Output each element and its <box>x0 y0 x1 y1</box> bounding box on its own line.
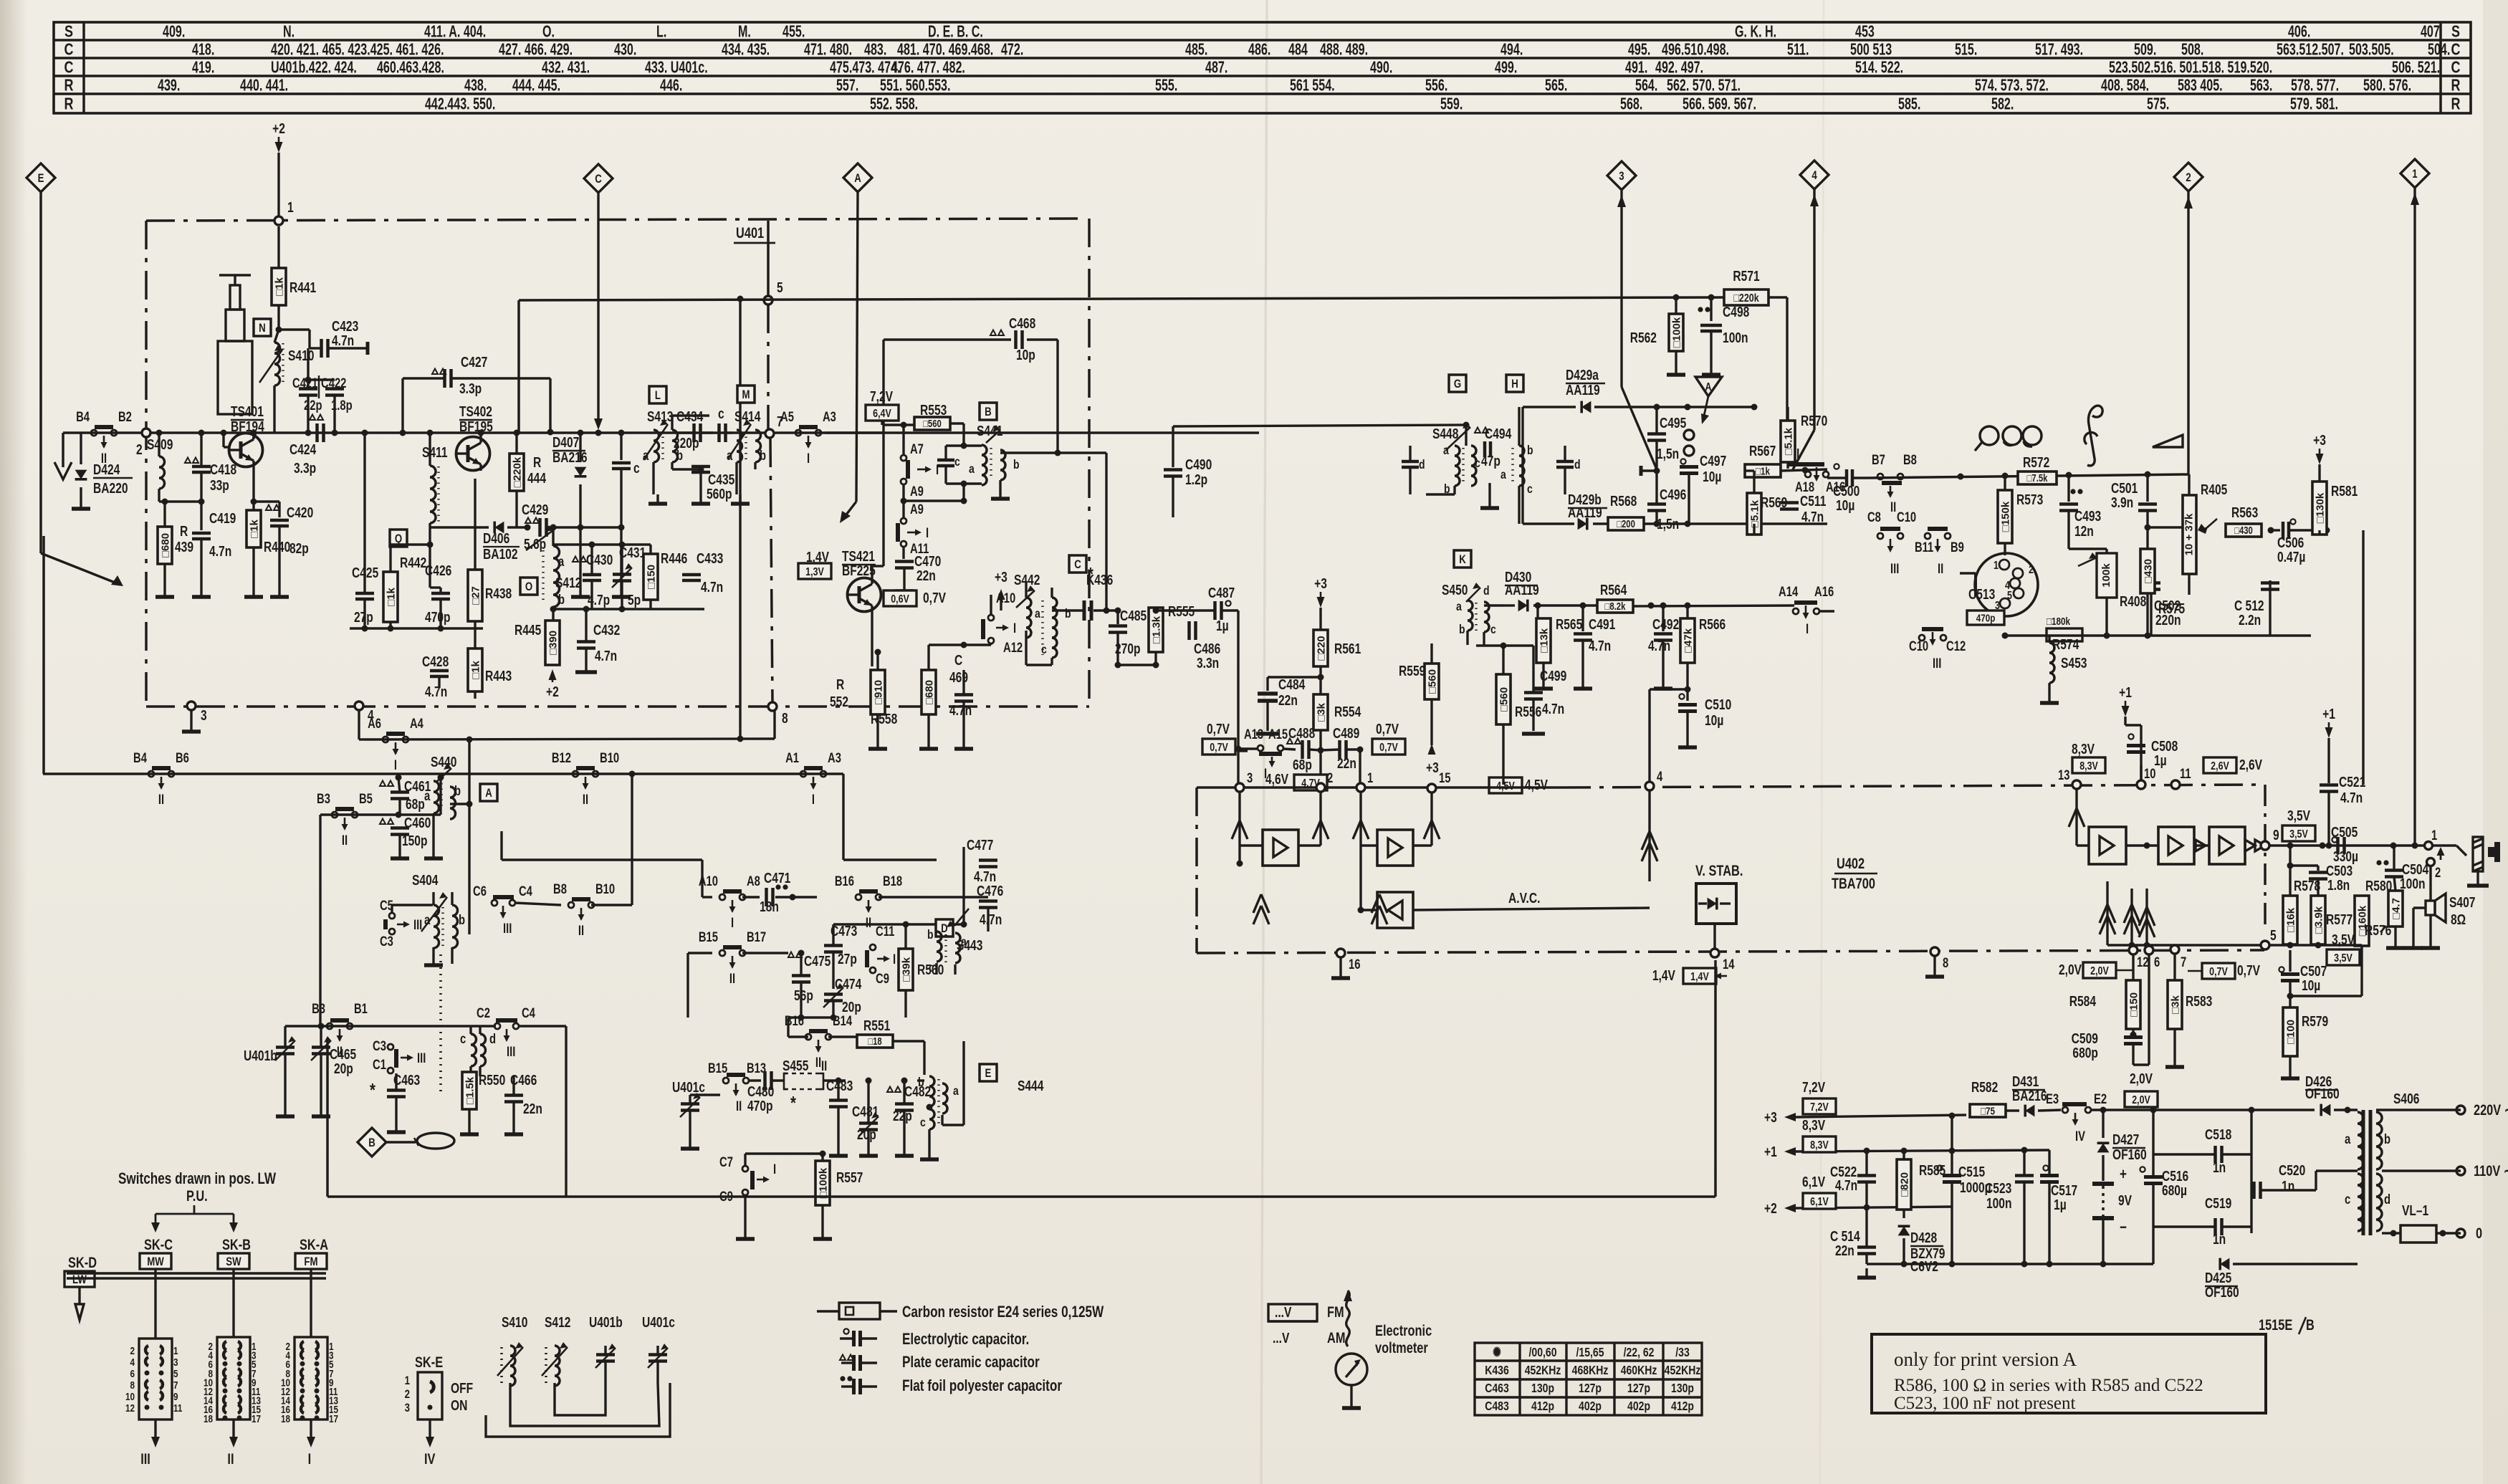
svg-text:566. 569. 567.: 566. 569. 567. <box>1683 95 1756 113</box>
svg-text:/15,65: /15,65 <box>1576 1345 1604 1359</box>
svg-text:R575: R575 <box>2158 600 2185 616</box>
svg-text:C483: C483 <box>1485 1399 1509 1413</box>
svg-text:+3: +3 <box>1314 575 1327 591</box>
svg-text:II: II <box>158 792 164 807</box>
capacitor d right <box>1556 460 1574 464</box>
svg-text:R559: R559 <box>1399 663 1425 679</box>
R445 resistor <box>545 621 560 665</box>
svg-text:484: 484 <box>1288 41 1308 59</box>
wire to S444 <box>936 975 937 1018</box>
svg-text:C7: C7 <box>719 1154 733 1169</box>
svg-text:470p: 470p <box>425 609 451 625</box>
svg-text:C515: C515 <box>1958 1164 1985 1179</box>
svg-text:/33: /33 <box>1675 1345 1690 1359</box>
C488 capacitor <box>1287 739 1293 745</box>
C507 capacitor <box>2279 967 2284 972</box>
node 12 6 7 <box>2129 946 2138 954</box>
svg-text:1,5n: 1,5n <box>1657 516 1679 532</box>
contact A10 A12 <box>871 612 873 666</box>
svg-text:b: b <box>1459 622 1465 636</box>
svg-text:12: 12 <box>125 1402 135 1414</box>
svg-text:B12: B12 <box>552 750 571 765</box>
R573 resistor <box>2004 476 2006 490</box>
svg-text:460KHz: 460KHz <box>1621 1363 1657 1377</box>
svg-text:C519: C519 <box>2205 1195 2231 1211</box>
svg-text:R: R <box>2451 95 2461 113</box>
svg-text:C428: C428 <box>422 654 449 669</box>
wire A1A3 to mixer <box>823 773 843 775</box>
svg-text:500 513: 500 513 <box>1850 41 1892 59</box>
svg-text:412p: 412p <box>1531 1399 1554 1413</box>
+2 rail <box>1784 1204 1796 1212</box>
svg-text:578. 577.: 578. 577. <box>2291 77 2339 95</box>
svg-text:SW: SW <box>226 1255 241 1269</box>
svg-text:II: II <box>736 1098 742 1114</box>
svg-text:BA220: BA220 <box>93 480 128 496</box>
R584 resistor <box>2126 980 2140 1029</box>
svg-text:3: 3 <box>173 1356 178 1369</box>
svg-text:U401b: U401b <box>244 1048 277 1063</box>
svg-text:□5.1k: □5.1k <box>1782 427 1794 455</box>
svg-text:127p: 127p <box>1579 1381 1602 1395</box>
svg-text:C422: C422 <box>321 375 346 391</box>
svg-text:B: B <box>985 406 992 419</box>
U401 boundary right <box>1088 219 1091 707</box>
svg-text:17: 17 <box>329 1412 338 1425</box>
svg-text:C470: C470 <box>914 553 941 569</box>
svg-text:R564: R564 <box>1600 582 1627 598</box>
svg-text:27p: 27p <box>838 951 857 967</box>
svg-text:□3k: □3k <box>1315 702 1327 721</box>
svg-text:R556: R556 <box>1515 704 1541 719</box>
svg-text:C497: C497 <box>1700 453 1726 469</box>
wire TS421 emitter <box>872 666 878 667</box>
node 3 <box>187 702 196 710</box>
volume wedge icon <box>2153 435 2183 447</box>
svg-text:407: 407 <box>2421 23 2440 41</box>
svg-text:A: A <box>854 172 861 186</box>
svg-text:C513: C513 <box>1968 586 1995 602</box>
svg-text:III: III <box>140 1450 150 1467</box>
svg-text:C: C <box>1074 558 1081 572</box>
C502 capacitor <box>2150 580 2152 636</box>
rail B4 B6 long <box>43 772 843 775</box>
svg-text:C10: C10 <box>1909 638 1928 654</box>
svg-text:O.: O. <box>542 23 555 41</box>
svg-text:TS401: TS401 <box>231 403 264 419</box>
svg-text:R573: R573 <box>2016 492 2043 507</box>
svg-text:□4.7: □4.7 <box>2390 898 2402 919</box>
R565 resistor <box>1536 605 1538 618</box>
svg-text:...V: ...V <box>1273 1330 1289 1346</box>
telescopic antenna <box>219 274 251 277</box>
R556 resistor <box>1496 674 1511 724</box>
svg-text:483.: 483. <box>864 41 886 59</box>
svg-text:d: d <box>1574 457 1581 471</box>
svg-text:10: 10 <box>125 1391 135 1403</box>
svg-text:□430: □430 <box>2234 525 2253 537</box>
svg-text:564.: 564. <box>1635 77 1657 95</box>
svg-text:C419: C419 <box>209 510 236 526</box>
svg-text:4.7n: 4.7n <box>595 648 617 664</box>
svg-text:3,5V: 3,5V <box>2332 932 2355 947</box>
svg-text:E3: E3 <box>2046 1091 2059 1106</box>
C517 capacitor <box>2043 1165 2048 1170</box>
svg-text:S440: S440 <box>431 754 456 770</box>
speaker S407 <box>2429 865 2431 939</box>
svg-text:0,7V: 0,7V <box>1376 721 1399 737</box>
svg-text:0,7V: 0,7V <box>1210 741 1228 754</box>
svg-text:C517: C517 <box>2051 1182 2077 1198</box>
svg-text:488. 489.: 488. 489. <box>1320 41 1368 59</box>
svg-text:438.: 438. <box>464 77 487 95</box>
svg-text:□100: □100 <box>2284 1020 2297 1044</box>
svg-text:127p: 127p <box>1627 1381 1650 1395</box>
svg-text:□3.9k: □3.9k <box>2312 906 2325 934</box>
long bottom loop <box>327 1195 1715 1198</box>
svg-text:C429: C429 <box>522 502 548 517</box>
svg-text:B6: B6 <box>176 750 189 765</box>
R561 resistor <box>1313 630 1328 666</box>
C432 capacitor <box>585 609 587 641</box>
contact B15 B17 <box>719 950 725 956</box>
svg-text:Switches drawn in pos. LW: Switches drawn in pos. LW <box>118 1170 276 1188</box>
svg-text:418.: 418. <box>192 41 214 59</box>
svg-text:C12: C12 <box>1946 638 1966 654</box>
svg-text:5: 5 <box>777 279 783 295</box>
C515 capacitor <box>1937 1165 1942 1170</box>
svg-text:517. 493.: 517. 493. <box>2035 41 2083 59</box>
svg-text:82p: 82p <box>289 540 309 556</box>
SK-B contacts <box>224 1341 226 1350</box>
node C diamond <box>584 164 613 193</box>
svg-text:a: a <box>953 1083 959 1098</box>
svg-text:R550: R550 <box>479 1072 505 1088</box>
svg-text:□1k: □1k <box>248 519 260 537</box>
svg-text:OF160: OF160 <box>2205 1284 2239 1300</box>
svg-text:16: 16 <box>1349 957 1360 972</box>
svg-text:A1: A1 <box>785 750 799 765</box>
svg-text:220V ∼: 220V ∼ <box>2474 1101 2508 1118</box>
svg-text:A9: A9 <box>910 484 924 499</box>
svg-text:11: 11 <box>2180 766 2191 781</box>
wire to C517 area <box>2362 530 2364 785</box>
svg-text:c: c <box>718 406 724 421</box>
detector ground <box>1488 483 1490 499</box>
long wire node5 <box>519 297 1724 300</box>
node pin14 <box>1710 949 1719 957</box>
svg-text:c: c <box>1041 642 1047 656</box>
svg-text:C509: C509 <box>2072 1030 2098 1046</box>
svg-text:□13k: □13k <box>1538 628 1550 653</box>
C497 chain <box>1684 430 1694 440</box>
svg-text:S412: S412 <box>555 575 581 590</box>
svg-text:R584: R584 <box>2069 993 2096 1009</box>
svg-text:3: 3 <box>405 1402 410 1415</box>
svg-text:R: R <box>2451 76 2461 95</box>
R554 resistor <box>1313 694 1328 730</box>
C492 capacitor <box>1662 605 1664 631</box>
svg-text:□7.5k: □7.5k <box>2027 472 2049 484</box>
C420 capacitor <box>266 505 272 511</box>
svg-text:0,7V: 0,7V <box>1379 741 1398 754</box>
svg-text:1,4V: 1,4V <box>1652 967 1675 983</box>
svg-text:B: B <box>2306 1316 2315 1333</box>
R557 resistor <box>815 1161 830 1205</box>
C516 capacitor <box>2140 1167 2145 1172</box>
svg-text:+1: +1 <box>2119 684 2132 700</box>
svg-text:4.7n: 4.7n <box>1648 638 1670 654</box>
svg-text:R438: R438 <box>485 585 512 601</box>
C523 capacitor <box>2015 1174 2034 1177</box>
C468 loop <box>882 340 884 433</box>
S412 transformer <box>520 578 537 595</box>
svg-text:a: a <box>558 554 565 569</box>
svg-text:BA102: BA102 <box>483 546 518 562</box>
svg-text:452KHz: 452KHz <box>1665 1363 1701 1377</box>
R580 resistor 160k <box>2361 846 2363 896</box>
C509 capacitor <box>2132 1035 2134 1037</box>
R408 pot <box>2097 553 2117 598</box>
svg-text:9V: 9V <box>2118 1192 2132 1208</box>
pin1 arrow <box>1359 792 1361 846</box>
node A diamond <box>843 163 872 192</box>
diode D424 BA220 <box>80 433 82 464</box>
svg-text:499.: 499. <box>1495 59 1517 77</box>
contact A9 A11 <box>902 501 904 518</box>
svg-text:C6: C6 <box>473 884 487 899</box>
svg-text:L: L <box>655 389 661 403</box>
svg-text:2.2n: 2.2n <box>2239 612 2261 628</box>
C510 capacitor <box>1686 689 1688 701</box>
svg-text:551. 560.553.: 551. 560.553. <box>880 77 950 95</box>
svg-text:S450: S450 <box>1442 582 1468 598</box>
svg-text:C418: C418 <box>210 461 236 477</box>
svg-text:S407: S407 <box>2449 894 2475 910</box>
svg-text:IV: IV <box>424 1450 436 1467</box>
svg-text:AA119: AA119 <box>1505 582 1539 598</box>
svg-text:559.: 559. <box>1440 95 1463 113</box>
S410 coil <box>276 327 282 333</box>
legend foil <box>840 1376 845 1381</box>
svg-text:A4: A4 <box>410 716 423 731</box>
svg-text:8,3V: 8,3V <box>2072 741 2095 757</box>
R570 resistor <box>1781 421 1795 462</box>
svg-text:56p: 56p <box>794 987 813 1003</box>
svg-text:6,1V: 6,1V <box>1810 1195 1829 1208</box>
R579 resistor <box>2283 1007 2297 1056</box>
svg-text:C11: C11 <box>876 924 894 939</box>
C494 capacitor <box>1475 428 1480 434</box>
contact A6 A4 <box>358 710 360 739</box>
svg-text:4.7n: 4.7n <box>209 543 231 559</box>
svg-text:C423: C423 <box>332 318 358 334</box>
svg-text:1: 1 <box>2412 168 2418 181</box>
svg-text:0,6V: 0,6V <box>891 593 909 605</box>
svg-text:O: O <box>525 580 532 594</box>
svg-text:+1: +1 <box>1764 1144 1777 1159</box>
svg-text:G. K. H.: G. K. H. <box>1735 23 1776 41</box>
svg-text:C518: C518 <box>2205 1126 2231 1142</box>
svg-text:I: I <box>1796 446 1799 461</box>
svg-text:R440: R440 <box>264 539 290 555</box>
svg-text:2: 2 <box>1327 770 1333 785</box>
R550 resistor <box>462 1072 477 1109</box>
svg-text:9: 9 <box>173 1391 178 1403</box>
svg-text:3,5V: 3,5V <box>2289 828 2308 841</box>
svg-text:a: a <box>2345 1131 2351 1146</box>
box C mixer <box>1069 555 1086 573</box>
svg-text:511.: 511. <box>1787 41 1809 59</box>
svg-text:A18: A18 <box>1795 479 1814 494</box>
C470 capacitor <box>895 560 914 563</box>
svg-text:C426: C426 <box>425 563 451 578</box>
svg-text:22n: 22n <box>1337 755 1356 771</box>
svg-text:18: 18 <box>204 1412 213 1425</box>
svg-text:10µ: 10µ <box>1703 469 1721 484</box>
R562 <box>1673 295 1680 301</box>
svg-text:3: 3 <box>1619 170 1624 183</box>
svg-text:0,7V: 0,7V <box>2237 962 2260 978</box>
C480 capacitor <box>763 1071 767 1090</box>
legend ceramic <box>840 1355 846 1361</box>
svg-text:583 405.: 583 405. <box>2178 77 2223 95</box>
wire IF out <box>1238 750 1248 752</box>
svg-text:S413: S413 <box>647 408 673 424</box>
svg-text:+1: +1 <box>2322 706 2335 722</box>
svg-text:C498: C498 <box>1723 304 1749 320</box>
C493 capacitor <box>2070 489 2075 494</box>
svg-text:7,2V: 7,2V <box>870 388 893 404</box>
box G <box>1449 375 1466 392</box>
svg-text:8: 8 <box>130 1379 135 1392</box>
svg-text:U401c: U401c <box>672 1079 705 1095</box>
svg-text:I: I <box>731 915 734 930</box>
svg-text:130p: 130p <box>1531 1381 1554 1395</box>
svg-text:ON: ON <box>451 1397 467 1413</box>
svg-text:□150: □150 <box>645 565 657 589</box>
svg-text:585.: 585. <box>1898 95 1920 113</box>
svg-text:1: 1 <box>287 199 294 215</box>
treble clef icon <box>2087 406 2102 466</box>
svg-text:460.463.428.: 460.463.428. <box>377 59 444 77</box>
svg-text:1.8p: 1.8p <box>331 398 353 413</box>
svg-text:D428: D428 <box>1910 1230 1937 1245</box>
svg-text:4,6V: 4,6V <box>1265 771 1288 787</box>
svg-text:R: R <box>64 95 74 113</box>
svg-text:R558: R558 <box>871 711 897 727</box>
svg-text:D431: D431 <box>2012 1073 2039 1089</box>
svg-text:V. STAB.: V. STAB. <box>1695 862 1743 879</box>
svg-text:B4: B4 <box>133 750 147 765</box>
svg-text:B10: B10 <box>595 881 615 896</box>
svg-text:9: 9 <box>2273 827 2279 843</box>
svg-text:10µ: 10µ <box>2302 977 2320 993</box>
svg-text:2: 2 <box>2435 865 2441 880</box>
svg-text:Plate ceramic capacitor: Plate ceramic capacitor <box>902 1354 1040 1371</box>
svg-text:Electrolytic capacitor.: Electrolytic capacitor. <box>902 1331 1029 1349</box>
svg-text:II: II <box>578 923 584 938</box>
svg-text:SK-A: SK-A <box>300 1236 328 1253</box>
svg-text:2,0V: 2,0V <box>2059 962 2082 977</box>
svg-text:N.: N. <box>283 23 295 41</box>
capacitor c S412 <box>620 433 622 460</box>
svg-text:3,5V: 3,5V <box>2287 808 2310 823</box>
svg-text:R565: R565 <box>1556 616 1582 632</box>
headphone icon <box>1980 426 1999 445</box>
svg-text:3.3p: 3.3p <box>294 460 316 476</box>
svg-text:470p: 470p <box>747 1098 773 1114</box>
svg-text:20p: 20p <box>857 1126 876 1142</box>
svg-text:13: 13 <box>2058 767 2069 782</box>
svg-text:439.: 439. <box>158 77 180 95</box>
svg-text:575.: 575. <box>2147 95 2169 113</box>
svg-text:680µ: 680µ <box>2162 1182 2187 1198</box>
box N <box>254 319 271 336</box>
svg-text:6,4V: 6,4V <box>873 407 891 420</box>
svg-text:10µ: 10µ <box>1836 497 1854 513</box>
svg-text:S410: S410 <box>502 1314 527 1330</box>
node 13 <box>2072 780 2081 789</box>
svg-text:486.: 486. <box>1248 41 1270 59</box>
svg-text:C6V2: C6V2 <box>1910 1258 1938 1274</box>
svg-text:560p: 560p <box>707 486 732 502</box>
R439 resistor <box>163 502 166 527</box>
svg-text:I: I <box>1806 621 1809 636</box>
svg-text:R553: R553 <box>920 402 947 418</box>
svg-text:R561: R561 <box>1334 641 1361 656</box>
svg-text:R405: R405 <box>2201 482 2227 497</box>
svg-text:110V ∼: 110V ∼ <box>2474 1162 2508 1179</box>
svg-text:A6: A6 <box>368 716 381 731</box>
svg-text:III: III <box>417 1050 426 1066</box>
legend resistor <box>817 1310 839 1312</box>
R441 resistor <box>277 226 279 268</box>
svg-text:509.: 509. <box>2134 41 2156 59</box>
svg-text:568.: 568. <box>1620 95 1642 113</box>
svg-text:S453: S453 <box>2061 655 2087 671</box>
svg-text:Electronic: Electronic <box>1375 1322 1432 1339</box>
svg-text:B10: B10 <box>600 750 619 765</box>
svg-text:1: 1 <box>173 1345 178 1357</box>
svg-text:III: III <box>503 921 512 936</box>
svg-text:C475: C475 <box>804 953 831 969</box>
svg-text:P.U.: P.U. <box>186 1187 208 1204</box>
svg-text:a: a <box>1501 467 1507 482</box>
contact A1 A3 <box>800 771 806 777</box>
svg-text:8,3V: 8,3V <box>1810 1139 1829 1152</box>
svg-text:100k: 100k <box>2100 563 2112 588</box>
svg-text:4.7n: 4.7n <box>332 332 354 348</box>
C484 capacitor <box>1268 676 1321 678</box>
C421 C422 capacitors <box>307 348 309 388</box>
svg-text:□1k: □1k <box>273 277 285 295</box>
svg-text:1.2p: 1.2p <box>1185 471 1207 487</box>
A amp triangle <box>1695 377 1722 396</box>
D427 diode <box>2097 1143 2110 1152</box>
svg-text:□27: □27 <box>469 586 482 605</box>
svg-text:□150: □150 <box>2128 992 2140 1017</box>
pin4 link <box>1649 781 1650 790</box>
svg-text:R: R <box>64 76 74 95</box>
svg-text:0: 0 <box>2476 1225 2482 1241</box>
svg-text:579. 581.: 579. 581. <box>2290 95 2338 113</box>
svg-text:1.8n: 1.8n <box>2327 877 2350 893</box>
svg-text:S: S <box>64 22 73 41</box>
svg-text:□220k: □220k <box>1733 292 1758 305</box>
node 10 <box>2137 780 2145 789</box>
svg-text:R445: R445 <box>514 622 541 638</box>
